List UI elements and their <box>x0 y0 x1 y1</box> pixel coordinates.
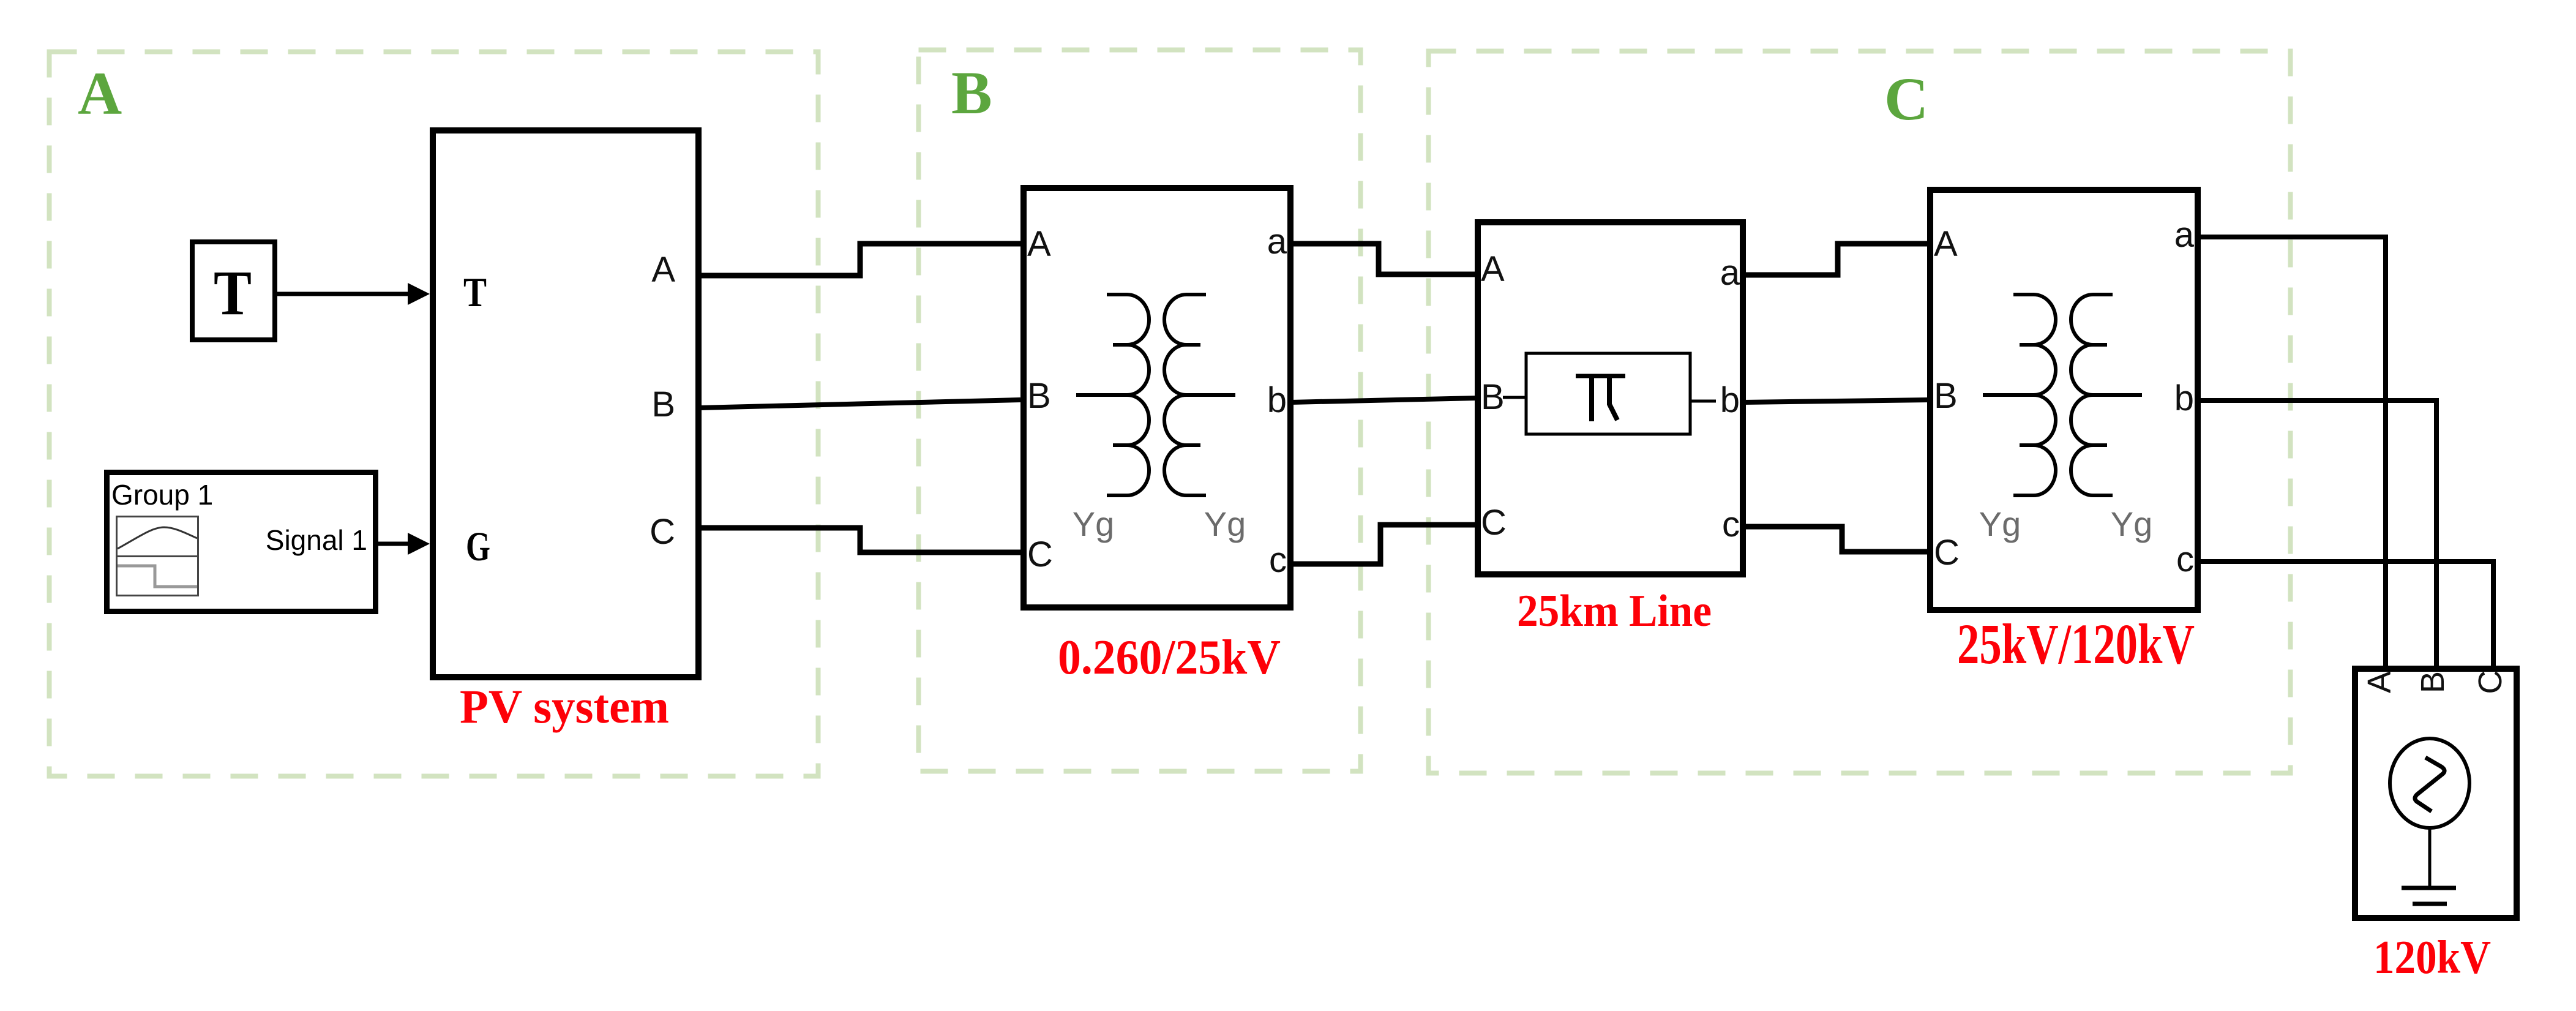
svg-text:B: B <box>2414 671 2451 693</box>
svg-text:A: A <box>2361 671 2398 693</box>
svg-text:25km Line: 25km Line <box>1517 586 1712 636</box>
zone C dashed boundary <box>1429 51 2291 773</box>
svg-text:Yg: Yg <box>1204 505 1246 543</box>
wire phase C: 25km line to transformer 2 <box>1743 527 1930 552</box>
wire T to PV (signal arrow) <box>277 283 430 305</box>
transformer block 0.260/25kV <box>1024 188 1290 607</box>
svg-text:0.260/25kV: 0.260/25kV <box>1058 631 1281 685</box>
svg-text:C: C <box>1027 535 1053 574</box>
svg-text:T: T <box>214 258 252 328</box>
svg-text:C: C <box>1481 503 1507 543</box>
wire Signal 1 to PV (signal arrow) <box>378 533 430 555</box>
svg-text:Group 1: Group 1 <box>111 479 213 511</box>
label 0.260/25kV <box>1058 631 1281 685</box>
wire phase A: transformer 1 to 25km line <box>1290 244 1478 274</box>
wire phase C: PV to transformer 1 <box>698 528 1020 552</box>
svg-text:a: a <box>1720 253 1740 293</box>
svg-text:120kV: 120kV <box>2373 931 2491 983</box>
svg-text:B: B <box>951 59 992 127</box>
svg-text:A: A <box>651 250 675 290</box>
wire phase B: transformer 2 to 120kV source <box>2198 400 2436 669</box>
wire phase A: transformer 2 to 120kV source <box>2198 237 2386 669</box>
svg-text:c: c <box>1722 505 1740 544</box>
transformer 1 windings <box>1073 295 1246 543</box>
svg-text:Signal 1: Signal 1 <box>266 524 367 556</box>
25km line block <box>1478 222 1743 574</box>
svg-text:G: G <box>466 523 490 569</box>
svg-text:B: B <box>1934 376 1958 416</box>
svg-text:C: C <box>650 512 675 552</box>
zone B label <box>951 59 992 127</box>
wire phase C: transformer 2 to 120kV source <box>2198 562 2493 669</box>
zone B dashed boundary <box>919 50 1361 772</box>
svg-text:Yg: Yg <box>1979 505 2021 543</box>
svg-text:T: T <box>463 269 487 315</box>
AC source symbol <box>2390 739 2469 828</box>
wire phase B: transformer 1 to 25km line <box>1290 398 1478 402</box>
zone A dashed boundary <box>50 52 818 776</box>
label PV system <box>460 680 669 733</box>
120kV source block <box>2355 669 2517 918</box>
svg-text:A: A <box>1934 224 1958 264</box>
svg-text:C: C <box>1884 65 1928 133</box>
svg-text:C: C <box>1934 533 1960 573</box>
svg-text:c: c <box>2176 539 2194 579</box>
wire phase C: transformer 1 to 25km line <box>1290 525 1478 564</box>
constant block T <box>192 242 275 340</box>
svg-text:b: b <box>2174 378 2194 418</box>
zone A label <box>78 59 122 127</box>
svg-text:c: c <box>1269 540 1287 580</box>
label 25km Line <box>1517 586 1712 636</box>
signal builder block Group 1 <box>107 473 376 612</box>
wire phase B: 25km line to transformer 2 <box>1743 400 1930 402</box>
pi section icon <box>1503 353 1716 434</box>
svg-text:a: a <box>1267 222 1287 261</box>
svg-text:b: b <box>1720 380 1740 420</box>
transformer block 25kV/120kV <box>1930 190 2198 610</box>
svg-text:A: A <box>78 59 122 127</box>
svg-text:B: B <box>651 385 675 424</box>
label 25kV/120kV <box>1957 613 2195 676</box>
zone C label <box>1884 65 1928 133</box>
svg-text:A: A <box>1027 224 1051 264</box>
wire phase B: PV to transformer 1 <box>698 400 1020 408</box>
PV system block <box>433 130 698 677</box>
wire phase A: PV to transformer 1 <box>698 244 1020 276</box>
ground symbol <box>2402 828 2456 904</box>
svg-text:Yg: Yg <box>1073 505 1115 543</box>
wire phase A: 25km line to transformer 2 <box>1743 244 1930 275</box>
svg-text:Yg: Yg <box>2111 505 2153 543</box>
svg-text:a: a <box>2174 215 2195 255</box>
svg-text:B: B <box>1027 376 1051 416</box>
svg-text:25kV/120kV: 25kV/120kV <box>1957 613 2195 676</box>
svg-text:A: A <box>1481 249 1505 289</box>
label 120kV <box>2373 931 2491 983</box>
svg-text:B: B <box>1481 377 1505 417</box>
svg-text:C: C <box>2472 671 2509 694</box>
svg-text:b: b <box>1267 380 1287 420</box>
transformer 2 windings <box>1979 295 2153 543</box>
svg-text:PV system: PV system <box>460 680 669 733</box>
